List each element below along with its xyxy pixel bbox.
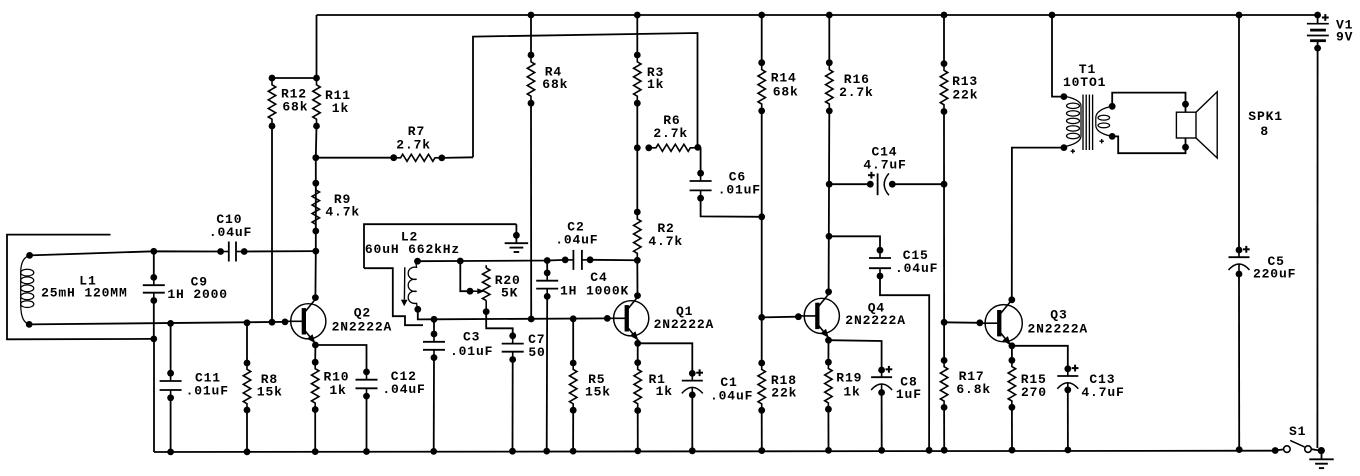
label C11 (0, 0, 1, 1)
node: R15-rail junction (1009, 447, 1016, 454)
node: R18-rail junction (758, 447, 765, 454)
label R4 (0, 0, 1, 1)
node: C11 junction (167, 320, 174, 327)
wire: C6 top lead from R6 link (700, 147, 702, 173)
wire: L1 top to C10/R9 line (30, 251, 221, 255)
wire: C1 to rail (691, 395, 693, 451)
node: R9 bottom pin (312, 228, 319, 235)
capacitor C13 (1057, 365, 1078, 390)
node: rail-R4 junction (528, 12, 535, 19)
label S1 (0, 0, 1, 1)
node: C12 bottom pin (363, 393, 370, 400)
capacitor C12 (356, 372, 378, 396)
wire: Q3 base wire (944, 321, 980, 324)
svg-text:8: 8 (1260, 124, 1269, 139)
node: C11 top pin (167, 370, 174, 377)
svg-text:.04uF: .04uF (895, 261, 938, 276)
node: wiper pin (467, 288, 474, 295)
node: R12 bottom pin (269, 123, 276, 130)
node: rail-R3 junction (634, 12, 641, 19)
node: V1 plus pin (1314, 12, 1321, 19)
wire: R7 left lead (316, 157, 394, 159)
label L1 (0, 0, 1, 1)
svg-text:.01uF: .01uF (186, 384, 229, 399)
node: Q2 base pin (282, 319, 289, 326)
node: C4 top pin (544, 270, 551, 277)
label R12 (0, 0, 1, 1)
wire: R20 wiper arm (460, 261, 470, 291)
capacitor C11 (160, 373, 182, 398)
node: C15 bottom pin (877, 273, 884, 280)
node: C7 bottom pin (509, 356, 516, 363)
svg-text:.01uF: .01uF (450, 344, 493, 359)
label R17 (0, 0, 1, 1)
label R7 (0, 0, 1, 1)
node: S1-battery-ground junction (1318, 447, 1325, 454)
wire: R14 top lead (761, 15, 763, 63)
svg-text:2N2222A: 2N2222A (654, 317, 715, 332)
node: C2 left pin (562, 257, 569, 264)
label R10 (0, 0, 1, 1)
svg-text:S1: S1 (1289, 424, 1306, 439)
node: C10 wire end junction (312, 248, 319, 255)
svg-text:1H 1000K: 1H 1000K (560, 283, 629, 298)
inductor L2 (408, 261, 418, 309)
resistor R4 (527, 55, 534, 103)
wire: L2 shield staircase (364, 268, 423, 325)
node: R2 top pin (634, 209, 641, 216)
capacitor C15 (869, 250, 891, 276)
svg-text:2N2222A: 2N2222A (332, 319, 393, 334)
node: SPK1 top pin (1182, 101, 1189, 108)
node: rail-T1 junction (1049, 12, 1056, 19)
resistor R9 (312, 183, 319, 231)
capacitor C9 (143, 277, 165, 300)
node: C9 top junction (150, 248, 157, 255)
capacitor C8 (871, 366, 892, 393)
wire: second rail (R7 to R6 top link) (473, 33, 698, 157)
svg-text:Q3: Q3 (1050, 308, 1067, 323)
transformer T1 primary (1064, 96, 1081, 146)
node: Q2 collector pin (312, 294, 319, 301)
resistor R8 (243, 363, 250, 410)
capacitor C3 (423, 334, 445, 358)
svg-text:R7: R7 (408, 124, 425, 139)
svg-text:25mH 120MM: 25mH 120MM (41, 285, 128, 300)
wire: Q2 base wire (L1 bottom to Q2) (29, 322, 285, 325)
svg-text:10TO1: 10TO1 (1063, 75, 1106, 90)
wire: C10 to R9 line (244, 250, 316, 252)
capacitor C14 (0, 0, 1, 1)
svg-text:1k: 1k (332, 101, 349, 116)
wire: C11 leads (170, 323, 172, 452)
wire: C12 to rail (366, 396, 368, 451)
wire: Q2 emitter to R10 (314, 345, 316, 362)
svg-text:60uH 662kHz: 60uH 662kHz (365, 242, 460, 257)
node: R8 top pin (244, 360, 251, 367)
node: R10 bottom pin (312, 406, 319, 413)
node: C14 left junction (826, 181, 833, 188)
node: C2 right pin (587, 256, 594, 263)
svg-text:5K: 5K (501, 285, 518, 300)
node: Q4 base pin (795, 313, 802, 320)
label R1 (0, 0, 1, 1)
svg-text:.04uF: .04uF (382, 382, 425, 397)
wire: bottom ground rail (154, 451, 1275, 452)
node: C8 top pin (878, 367, 885, 374)
node: Q4 emitter pin (825, 337, 832, 344)
node: R1-rail junction (634, 448, 641, 455)
svg-text:220uF: 220uF (1253, 267, 1296, 282)
label R9 (0, 0, 1, 1)
label C15 (0, 0, 1, 1)
svg-text:1k: 1k (329, 383, 346, 398)
label C12 (0, 0, 1, 1)
wire: C4 leads (546, 261, 549, 452)
node: Q3 base junction (941, 319, 948, 326)
svg-text:4.7k: 4.7k (648, 234, 683, 249)
label C3 (0, 0, 1, 1)
svg-text:68k: 68k (282, 100, 308, 115)
label R19 (0, 0, 1, 1)
wire: C2 coupling wire (L2 top to R2 bottom) (418, 260, 566, 261)
wire: C13 to rail (1067, 390, 1069, 450)
resistor R2 (634, 212, 641, 260)
wire: C9 leads (153, 251, 155, 339)
node: C4 top junction (544, 257, 551, 264)
node: R14 bottom pin (758, 108, 765, 115)
node: R4 top pin (528, 52, 535, 59)
label T1 (0, 0, 1, 1)
capacitor C1 (682, 369, 703, 395)
wire: wiper arrow (470, 288, 484, 294)
resistor R19 (825, 362, 832, 409)
svg-text:R14: R14 (771, 71, 797, 86)
svg-text:SPK1: SPK1 (1248, 109, 1283, 124)
label C6 (0, 0, 1, 1)
wire: L2 bottom to C3 junction (418, 309, 434, 319)
label C5 (0, 0, 1, 1)
node: R5 bottom pin (570, 407, 577, 414)
svg-text:.04uF: .04uF (555, 233, 598, 248)
resistor R1 (634, 363, 641, 411)
node: C7-rail junction (509, 448, 516, 455)
resistor R10 (312, 362, 319, 409)
node: C4 bottom pin (544, 293, 551, 300)
transformer T1 core (1083, 95, 1093, 151)
node: L2 top pin (414, 258, 421, 265)
polarized cap C14 plates (868, 172, 889, 195)
label R13 (0, 0, 1, 1)
wire: R4 line down (530, 103, 532, 319)
svg-text:4.7uF: 4.7uF (1081, 385, 1124, 400)
battery V1 (1307, 14, 1329, 48)
wire: L2 shield path to ground (364, 224, 516, 268)
wire: C14 right lead (892, 183, 944, 185)
svg-text:270: 270 (1021, 385, 1047, 400)
wire: Q1 base wire (434, 317, 607, 320)
svg-text:.04uF: .04uF (710, 389, 753, 404)
node: R2 bottom / C2 junction (634, 257, 641, 264)
wire: R16 line down to Q4 (828, 111, 831, 292)
node: R17 top pin (941, 357, 948, 364)
label R20 (0, 0, 1, 1)
node: C3 bottom pin (431, 354, 438, 361)
node: R3 bottom pin (634, 100, 641, 107)
node: C14 left pin (867, 181, 874, 188)
node: C13-rail junction (1065, 447, 1072, 454)
node: R13 top pin (941, 60, 948, 67)
node: C3 wire junction (431, 316, 438, 323)
wire: antenna frame bracket (7, 235, 153, 340)
label C10 (0, 0, 1, 1)
node: R19-rail junction (825, 447, 832, 454)
resistor R18 (758, 363, 765, 410)
node: rail-R13 junction (941, 12, 948, 19)
ground: L2 ground symbol (505, 224, 529, 252)
node: R9 top pin (312, 180, 319, 187)
node: frame-C9 junction (150, 336, 157, 343)
svg-text:15k: 15k (257, 384, 283, 399)
node: Q2 emitter pin (312, 342, 319, 349)
wire: R10 to rail (314, 410, 316, 452)
wire: R14 line down (761, 111, 763, 318)
node: C5 bottom pin (1236, 271, 1243, 278)
svg-text:4.7uF: 4.7uF (863, 158, 906, 173)
node: L2 bottom pin (414, 306, 421, 313)
svg-text:6.8k: 6.8k (956, 382, 991, 397)
node: T1 secondary bottom pin (1109, 133, 1116, 140)
wire: R16 top lead (828, 15, 830, 63)
mark: T1 primary polarity (1071, 149, 1075, 153)
node: R8-rail junction (244, 448, 251, 455)
svg-text:C3: C3 (463, 330, 480, 345)
node: C15 top pin (877, 247, 884, 254)
label R15 (0, 0, 1, 1)
node: rail-C5 junction (1236, 12, 1243, 19)
wire: R18 to rail (761, 410, 763, 450)
wire: R17 to rail (943, 407, 945, 450)
label Q4 (0, 0, 1, 1)
node: C11-rail junction (167, 449, 174, 456)
node: R16 bottom pin (826, 108, 833, 115)
node: C8 bottom pin (878, 389, 885, 396)
node: C5-rail junction (1236, 446, 1243, 453)
label R2 (0, 0, 1, 1)
node: C3 top pin (431, 331, 438, 338)
wire: C7 to rail (512, 360, 514, 452)
svg-text:4.7k: 4.7k (325, 205, 360, 220)
svg-text:1uF: 1uF (896, 387, 922, 402)
node: R13 bottom pin (941, 108, 948, 115)
resistor R15 (1008, 360, 1015, 407)
node: R8 junction (244, 319, 251, 326)
node: R5 junction (570, 315, 577, 322)
node: C12 top pin (363, 369, 370, 376)
wire: R5 leads (572, 319, 574, 451)
wire: R3 to R6 junction (636, 103, 638, 148)
svg-text:2N2222A: 2N2222A (1028, 322, 1089, 337)
transformer T1 secondary (1096, 106, 1112, 136)
svg-text:.04uF: .04uF (209, 225, 252, 240)
label C9 (0, 0, 1, 1)
wire: Q4 emitter to C8 (829, 340, 882, 370)
wire: R15 to rail (1011, 407, 1013, 450)
node: R4 bottom pin (528, 100, 535, 107)
label R3 (0, 0, 1, 1)
label L2 (0, 0, 1, 1)
label R16 (0, 0, 1, 1)
node: C9 top pin (150, 274, 157, 281)
svg-text:9V: 9V (1336, 29, 1353, 44)
node: R19 bottom pin (825, 406, 832, 413)
svg-text:68k: 68k (773, 85, 799, 100)
node: R4 line junction (528, 316, 535, 323)
node: R11 bottom pin (313, 123, 320, 130)
label C8 (0, 0, 1, 1)
wire: Q3 emitter to R15 (1011, 346, 1013, 361)
node: C9 bottom pin (150, 297, 157, 304)
wire: battery to switch (1316, 48, 1318, 448)
node: C1 top pin (689, 370, 696, 377)
label Q2 (0, 0, 1, 1)
wire: R8 leads (246, 323, 248, 452)
node: T1 secondary top pin (1109, 103, 1116, 110)
switch S1 (1275, 440, 1318, 452)
node: R7 wire junction (312, 154, 319, 161)
label C7 (0, 0, 1, 1)
wire: R6 junction to R2 (636, 148, 638, 212)
svg-text:1k: 1k (647, 77, 664, 92)
node: Q3 collector pin (1008, 296, 1015, 303)
resistor R17 (940, 360, 947, 407)
node: Q3 base pin (976, 319, 983, 326)
node: R5-rail junction (570, 448, 577, 455)
svg-text:2N2222A: 2N2222A (845, 313, 906, 328)
node: R16 top pin (826, 59, 833, 66)
label R18 (0, 0, 1, 1)
node: C11 bottom pin (167, 394, 174, 401)
node: R17 bottom pin (941, 404, 948, 411)
wire: C15 to rail (880, 276, 929, 450)
node: Q4 base wire junction (758, 314, 765, 321)
node: R10-rail junction (312, 448, 319, 455)
wire: Q4 base wire (762, 316, 799, 319)
node: Q1 collector pin (634, 292, 641, 299)
node: C14 right pin (889, 181, 896, 188)
node: R5 top pin (570, 360, 577, 367)
svg-text:68k: 68k (542, 77, 568, 92)
wire: R4 top lead (530, 15, 532, 55)
wire: R7 right lead to corner (442, 156, 473, 159)
node: R8 bottom pin (244, 407, 251, 414)
svg-text:2.7k: 2.7k (396, 138, 431, 153)
node: Q4 collector pin (825, 288, 832, 295)
wire: C8 to rail (881, 393, 883, 451)
wire: R3 line (rail to R3) (636, 15, 638, 55)
node: C7 top pin (509, 332, 516, 339)
node: R6 right pin (694, 144, 701, 151)
svg-text:15k: 15k (585, 385, 611, 400)
resistor R5 (570, 363, 577, 410)
label C2 (0, 0, 1, 1)
transistor Q3 (980, 301, 1023, 345)
node: wiper branch junction (457, 258, 464, 265)
node: R19 top pin (825, 359, 832, 366)
node: L1 bottom pin (26, 321, 33, 328)
node: R6 left junction (634, 144, 641, 151)
node: C13 bottom pin (1064, 386, 1071, 393)
wire: R11 to R9/Q2 collector line (315, 126, 316, 298)
label SPK1 (0, 0, 1, 1)
wire: rail to C5 (1238, 15, 1240, 250)
node: R3 top pin (634, 52, 641, 59)
node: C6 top pin (697, 170, 704, 177)
wire: C6 to R14 line (701, 198, 762, 217)
node: C14-R13 junction (941, 181, 948, 188)
wire: R18 top (761, 317, 763, 363)
node: Q1 emitter pin (634, 340, 641, 347)
node: C6 bottom pin (697, 195, 704, 202)
node: SPK1 bottom pin (1182, 144, 1189, 151)
node: R12 top pin (269, 75, 276, 82)
capacitor C6 (690, 173, 712, 198)
svg-text:.01uF: .01uF (718, 183, 761, 198)
wire: C3 leads (433, 319, 435, 451)
wire: C9 down-left corner to rail (153, 339, 155, 452)
wire: R19 to rail (827, 409, 829, 450)
node: C10 right pin (241, 248, 248, 255)
node: R20 bottom pin (483, 308, 490, 315)
svg-text:1H 2000: 1H 2000 (167, 287, 228, 302)
label Q3 (0, 0, 1, 1)
resistor R11 (313, 78, 320, 126)
capacitor C2 (565, 250, 590, 270)
transistor Q2 (284, 299, 326, 343)
node: R1 top pin (634, 359, 641, 366)
resistor R7 (394, 154, 442, 161)
wire: R12-R11 top link (272, 77, 317, 79)
label R6 (0, 0, 1, 1)
wire: V+ top rail (317, 14, 1318, 16)
wire: R11 top corner (316, 15, 318, 78)
node: C13 top pin (1064, 365, 1071, 372)
node: R10 top pin (312, 359, 319, 366)
wire: Q3 collector to T1 primary (1012, 148, 1064, 300)
node: V1 minus pin (1314, 45, 1321, 52)
node: R7 left pin (390, 154, 397, 161)
capacitor C7 (502, 336, 524, 360)
potentiometer R20 (483, 265, 490, 311)
node: C8-rail junction (878, 447, 885, 454)
node: C5 top pin (1236, 247, 1243, 254)
wire: L2 arrow (401, 267, 408, 306)
resistor R13 (940, 64, 947, 112)
resistor R6 (649, 144, 698, 151)
node: R18 bottom pin (758, 407, 765, 414)
node: C15-rail junction (926, 447, 933, 454)
ground: bottom right ground symbol (1309, 451, 1333, 469)
capacitor C10 (221, 242, 245, 262)
wire: R13 line down (943, 112, 945, 323)
capacitor C4 (536, 273, 558, 297)
wire: C5 to rail (1238, 274, 1240, 450)
transistor Q4 (798, 294, 840, 338)
wire: Q4 emitter to R19 (827, 340, 829, 362)
node: R12 junction (269, 319, 276, 326)
transistor Q1 (607, 296, 649, 340)
svg-text:1k: 1k (656, 384, 673, 399)
